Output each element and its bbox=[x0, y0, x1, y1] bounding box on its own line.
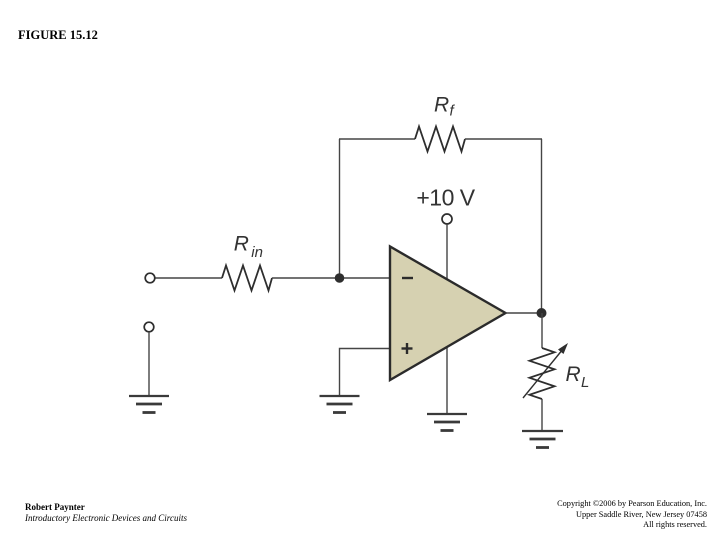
ground op-amp negative supply bbox=[427, 414, 467, 431]
wire feedback right vertical bbox=[541, 139, 543, 313]
wire feedback top left segment bbox=[339, 138, 415, 140]
svg-text:in: in bbox=[251, 244, 263, 261]
wire input terminal 1 to Rin bbox=[155, 277, 222, 279]
label Rf bbox=[434, 94, 456, 120]
wire terminal 2 to ground bbox=[148, 332, 150, 396]
wire Rin to inverting input bbox=[272, 277, 390, 279]
op-amp U1 body bbox=[390, 247, 506, 381]
op-amp inverting pin marker bbox=[402, 277, 413, 279]
resistor Rin bbox=[222, 266, 272, 291]
caption figure number bbox=[18, 28, 98, 43]
caption copyright notice bbox=[557, 499, 707, 531]
ground input terminal 2 bbox=[129, 396, 169, 413]
wire output bbox=[506, 312, 542, 314]
svg-text:R: R bbox=[566, 363, 581, 386]
svg-text:L: L bbox=[581, 374, 589, 391]
svg-text:f: f bbox=[450, 103, 456, 120]
ground noninverting input bbox=[320, 396, 360, 413]
caption author credit bbox=[25, 502, 187, 523]
input terminal 2 bbox=[144, 322, 154, 332]
wire feedback top right segment bbox=[465, 138, 542, 140]
node inverting input junction bbox=[335, 273, 345, 283]
svg-text:R: R bbox=[234, 233, 249, 256]
input terminal 1 bbox=[145, 273, 155, 283]
wire RL to ground bbox=[541, 399, 543, 431]
supply terminal +10 V bbox=[442, 214, 452, 224]
wire output to RL bbox=[541, 313, 543, 348]
node output junction bbox=[537, 308, 547, 318]
wire supply vertical through op-amp bbox=[446, 224, 448, 414]
svg-text:R: R bbox=[434, 94, 449, 117]
resistor Rf bbox=[415, 127, 465, 152]
wire feedback left vertical bbox=[339, 139, 341, 278]
ground RL bbox=[522, 431, 563, 448]
svg-text:+10 V: +10 V bbox=[416, 185, 475, 211]
label Rin bbox=[234, 233, 263, 262]
op-amp noninverting pin marker bbox=[402, 343, 413, 354]
wire noninverting input to ground bbox=[340, 349, 391, 397]
resistor RL variable bbox=[530, 348, 555, 399]
arrow RL variable adjustment bbox=[523, 343, 568, 398]
label RL bbox=[566, 363, 590, 391]
